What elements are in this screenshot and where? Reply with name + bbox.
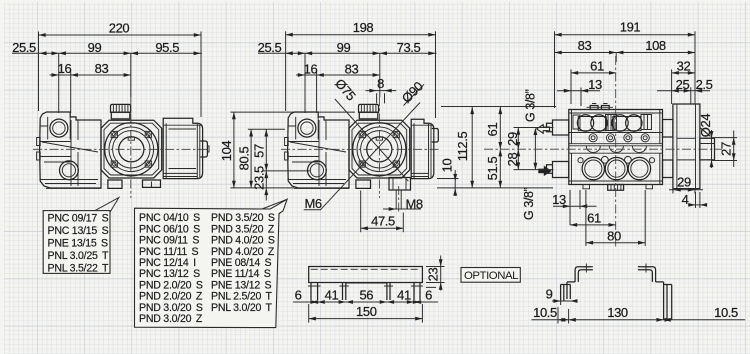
upper small bolt circles bbox=[589, 134, 649, 142]
table box bbox=[43, 211, 110, 274]
svg-text:32: 32 bbox=[677, 58, 691, 73]
svg-text:73.5: 73.5 bbox=[397, 40, 421, 55]
svg-text:16: 16 bbox=[304, 61, 318, 76]
svg-text:PNC 09/11 S: PNC 09/11 S bbox=[139, 235, 199, 247]
bell housing flange view2 bbox=[349, 120, 410, 178]
svg-text:PNL 3.0/20 T: PNL 3.0/20 T bbox=[211, 302, 272, 314]
flange bolts view2 bbox=[359, 131, 399, 167]
port circle bottom (view2) bbox=[308, 161, 327, 180]
svg-text:PNC 09/17 S: PNC 09/17 S bbox=[48, 213, 109, 225]
dim 16 / 83 bbox=[296, 61, 380, 113]
dim 23 bbox=[425, 256, 444, 291]
svg-text:PNC 13/15 S: PNC 13/15 S bbox=[48, 225, 109, 237]
flange bolts view1 bbox=[111, 131, 151, 167]
svg-text:198: 198 bbox=[353, 20, 374, 35]
svg-text:23.5: 23.5 bbox=[252, 166, 267, 190]
port circle top (view2) bbox=[298, 119, 316, 137]
dim Ø24 bbox=[698, 114, 715, 168]
left dim 61 bbox=[485, 107, 502, 149]
svg-text:13: 13 bbox=[552, 192, 566, 207]
dim 57 / 23.5 bbox=[248, 129, 310, 200]
svg-text:PNL 2.5/20 T: PNL 2.5/20 T bbox=[211, 291, 272, 303]
svg-text:25.5: 25.5 bbox=[258, 40, 282, 55]
left dim 28 bbox=[505, 149, 553, 169]
head left tabs bbox=[37, 138, 41, 161]
bottom sight glass bbox=[608, 185, 624, 191]
left dim 29 bbox=[505, 128, 553, 150]
svg-text:6: 6 bbox=[425, 287, 432, 302]
dim 191 bbox=[555, 20, 696, 108]
svg-text:104: 104 bbox=[219, 141, 234, 162]
svg-text:23: 23 bbox=[425, 268, 440, 282]
svg-text:83: 83 bbox=[95, 61, 109, 76]
oil filler cap view2 bbox=[359, 104, 379, 119]
svg-text:28: 28 bbox=[505, 153, 520, 167]
dim 29 plate bbox=[669, 174, 703, 193]
svg-text:56: 56 bbox=[359, 287, 373, 302]
svg-text:112.5: 112.5 bbox=[455, 132, 470, 162]
svg-text:PNL 3.5/22 T: PNL 3.5/22 T bbox=[48, 263, 109, 275]
left dim cluster: 104 bbox=[219, 112, 355, 188]
top edge bolts bbox=[590, 106, 609, 110]
left port block top bbox=[547, 120, 569, 135]
port circle bottom (view1) bbox=[60, 161, 79, 180]
svg-text:47.5: 47.5 bbox=[371, 214, 395, 229]
svg-text:PNE 13/12 S: PNE 13/12 S bbox=[211, 279, 272, 291]
right dim 112.5 bbox=[437, 107, 556, 188]
svg-text:99: 99 bbox=[88, 40, 102, 55]
dim 150 bbox=[309, 304, 423, 323]
M8 stud bbox=[396, 186, 401, 212]
bearing cover right view1 bbox=[200, 141, 207, 157]
dim 25 / 2.5 bbox=[657, 77, 713, 93]
diagonal leader Ø75 bbox=[332, 76, 408, 181]
svg-text:41: 41 bbox=[325, 287, 339, 302]
svg-text:PNE 08/14 S: PNE 08/14 S bbox=[211, 257, 272, 269]
svg-text:PNC 12/14 I: PNC 12/14 I bbox=[139, 257, 196, 269]
svg-text:G 3/8”: G 3/8” bbox=[524, 89, 538, 122]
svg-text:PND 3.5/20 Z: PND 3.5/20 Z bbox=[211, 223, 275, 235]
svg-text:9: 9 bbox=[546, 287, 553, 302]
dim 32 bbox=[672, 58, 695, 104]
leader M6 bbox=[304, 103, 420, 211]
svg-text:PND 2.0/20 Z: PND 2.0/20 Z bbox=[139, 291, 203, 303]
svg-text:PND 3.5/20 S: PND 3.5/20 S bbox=[211, 212, 275, 224]
svg-text:83: 83 bbox=[578, 38, 592, 53]
feet view1 bbox=[46, 180, 161, 188]
svg-text:Ø24: Ø24 bbox=[698, 114, 713, 138]
dim 4 plate bbox=[682, 192, 708, 208]
right dim 10 bbox=[437, 159, 459, 196]
left bracket bbox=[561, 267, 593, 301]
dim row 6/41/56/41/6 bbox=[293, 287, 438, 304]
dim 83 / 108 bbox=[555, 38, 696, 62]
pump head (manifold) view1 bbox=[37, 112, 101, 188]
diagonal leader Ø90 bbox=[399, 79, 426, 106]
dim 80 bottom bbox=[586, 190, 645, 246]
right port block bottom bbox=[663, 160, 673, 178]
valve caps top row bbox=[577, 115, 593, 131]
svg-text:61: 61 bbox=[590, 58, 604, 73]
svg-text:M6: M6 bbox=[305, 196, 322, 211]
svg-text:10.5: 10.5 bbox=[714, 305, 738, 320]
leader M8 bbox=[383, 196, 423, 211]
flow arrow out (top left) bbox=[537, 125, 550, 134]
right bracket bbox=[638, 267, 672, 320]
svg-text:25: 25 bbox=[676, 77, 690, 92]
svg-text:25.5: 25.5 bbox=[12, 40, 36, 55]
dim 13 bottom bbox=[552, 190, 596, 225]
svg-text:10.5: 10.5 bbox=[533, 305, 557, 320]
left port block bottom bbox=[547, 162, 569, 178]
dim 16 / 83 bbox=[50, 61, 132, 113]
centerlines view2 bbox=[281, 148, 440, 150]
svg-text:10: 10 bbox=[440, 159, 455, 173]
svg-text:PND 3.0/20 Z: PND 3.0/20 Z bbox=[139, 313, 203, 325]
svg-text:83: 83 bbox=[345, 61, 359, 76]
right port block top bbox=[663, 120, 673, 138]
table pointer tail bbox=[95, 198, 119, 213]
middle parting band bbox=[569, 144, 663, 154]
dim 47.5 bbox=[361, 191, 404, 233]
centerline view3 bbox=[484, 148, 722, 150]
svg-text:220: 220 bbox=[109, 20, 130, 35]
flow arrow in (bottom left) bbox=[539, 167, 551, 176]
svg-text:PNE 13/15 S: PNE 13/15 S bbox=[48, 238, 109, 250]
svg-text:29: 29 bbox=[677, 174, 691, 189]
svg-text:80: 80 bbox=[607, 228, 621, 243]
dim 61 top bbox=[571, 58, 616, 104]
dim 9 bbox=[546, 287, 578, 305]
svg-text:PND 2.0/20 S: PND 2.0/20 S bbox=[139, 279, 203, 291]
svg-text:41: 41 bbox=[397, 287, 411, 302]
feet bbox=[311, 283, 420, 301]
dim 25.5 / 99 / 95.5 bbox=[12, 40, 202, 113]
dim 10.5 / 130 / 10.5 baseline bbox=[532, 305, 746, 323]
svg-text:61: 61 bbox=[587, 211, 601, 226]
port circle top (view1) bbox=[50, 119, 68, 137]
flange plate view3 bbox=[673, 104, 700, 189]
svg-text:80.5: 80.5 bbox=[236, 146, 251, 170]
dim 198 bbox=[286, 20, 436, 118]
svg-text:4: 4 bbox=[682, 192, 689, 207]
svg-text:PNC 13/12 S: PNC 13/12 S bbox=[139, 268, 200, 280]
svg-text:G 3/8”: G 3/8” bbox=[522, 187, 536, 220]
bell housing flange view1 bbox=[101, 120, 162, 178]
dim 25.5 / 99 / 73.5 bbox=[258, 40, 437, 113]
G3/8 port leader line bbox=[534, 128, 538, 170]
feet and M8 boss view2 bbox=[294, 178, 411, 191]
plate outline bbox=[309, 267, 423, 283]
svg-text:150: 150 bbox=[356, 304, 377, 319]
svg-text:PNC 06/10 S: PNC 06/10 S bbox=[139, 223, 200, 235]
svg-text:PNC 04/10 S: PNC 04/10 S bbox=[139, 212, 200, 224]
crankcase view2 (short) bbox=[411, 119, 438, 178]
svg-text:13: 13 bbox=[588, 77, 602, 92]
pump head (manifold) view2 bbox=[285, 112, 349, 188]
svg-text:PND 3.0/20 S: PND 3.0/20 S bbox=[139, 302, 203, 314]
svg-text:6: 6 bbox=[295, 287, 302, 302]
svg-text:8: 8 bbox=[377, 76, 384, 91]
pump body view3 (top view) bbox=[547, 104, 673, 191]
svg-text:PND 4.0/20 Z: PND 4.0/20 Z bbox=[211, 246, 275, 258]
svg-text:PNC 11/11 S: PNC 11/11 S bbox=[139, 246, 199, 258]
dim 13 top bbox=[557, 77, 602, 106]
svg-text:27: 27 bbox=[719, 142, 734, 156]
svg-text:29: 29 bbox=[505, 132, 520, 146]
svg-text:191: 191 bbox=[620, 20, 641, 35]
svg-text:61: 61 bbox=[485, 123, 500, 137]
svg-text:2.5: 2.5 bbox=[696, 77, 713, 92]
svg-text:PND 4.0/20 S: PND 4.0/20 S bbox=[211, 235, 275, 247]
svg-text:16: 16 bbox=[58, 61, 72, 76]
oil filler cap view1 bbox=[111, 104, 131, 119]
left dim 51.5 bbox=[485, 149, 502, 188]
cylinder circles bottom row bbox=[582, 157, 604, 179]
svg-text:57: 57 bbox=[252, 144, 267, 158]
shaft view3 bbox=[677, 138, 715, 160]
dim 80.5 bbox=[236, 129, 253, 188]
svg-text:99: 99 bbox=[337, 40, 351, 55]
svg-text:130: 130 bbox=[607, 305, 628, 320]
svg-text:M8: M8 bbox=[406, 196, 423, 211]
dim 220 bbox=[39, 20, 202, 117]
table pointer tail bbox=[262, 199, 287, 214]
dim 61 bottom bbox=[570, 211, 616, 227]
dim 27 bbox=[712, 131, 737, 168]
svg-text:OPTIONAL: OPTIONAL bbox=[464, 270, 518, 282]
svg-text:108: 108 bbox=[645, 38, 666, 53]
dim 8 (keyway) bbox=[366, 76, 397, 103]
crankcase view1 bbox=[163, 118, 209, 178]
svg-text:51.5: 51.5 bbox=[485, 156, 500, 180]
svg-text:PNE 11/14 S: PNE 11/14 S bbox=[211, 268, 271, 280]
svg-text:95.5: 95.5 bbox=[155, 40, 179, 55]
centerlines view1 bbox=[33, 148, 209, 150]
svg-text:PNL 3.0/25 T: PNL 3.0/25 T bbox=[48, 250, 109, 262]
